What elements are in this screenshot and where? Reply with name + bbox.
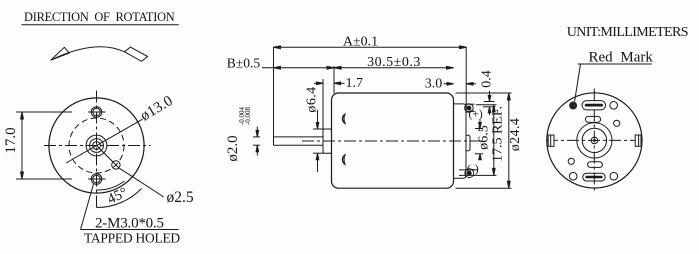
- svg-text:2-M3.0*0.5: 2-M3.0*0.5: [95, 216, 164, 232]
- svg-text:ø2.5: ø2.5: [167, 189, 194, 206]
- svg-text:1.7: 1.7: [346, 76, 364, 91]
- svg-text:ø2.0: ø2.0: [225, 135, 241, 161]
- svg-text:17.5 REF.: 17.5 REF.: [491, 106, 506, 162]
- svg-text:ø24.4: ø24.4: [508, 118, 523, 152]
- svg-text:17.0: 17.0: [3, 127, 19, 153]
- svg-text:0.4: 0.4: [479, 70, 494, 88]
- svg-text:TAPPED HOLED: TAPPED HOLED: [84, 231, 180, 246]
- svg-text:45°: 45°: [105, 184, 130, 207]
- svg-text:-0.008: -0.008: [244, 106, 252, 125]
- svg-text:30.5±0.3: 30.5±0.3: [367, 55, 421, 70]
- svg-text:DIRECTION OF ROTATION: DIRECTION OF ROTATION: [24, 10, 175, 24]
- svg-text:3.0: 3.0: [425, 77, 443, 92]
- svg-text:Red Mark: Red Mark: [589, 50, 654, 66]
- svg-text:UNIT:MILLIMETERS: UNIT:MILLIMETERS: [567, 25, 688, 40]
- svg-text:ø13.0: ø13.0: [138, 93, 176, 125]
- svg-text:A±0.1: A±0.1: [343, 35, 378, 50]
- svg-text:ø6.5: ø6.5: [476, 125, 491, 150]
- svg-text:(+): (+): [469, 109, 483, 121]
- svg-text:B±0.5: B±0.5: [227, 56, 261, 71]
- svg-text:ø6.4: ø6.4: [305, 86, 320, 112]
- svg-text:(-): (-): [467, 162, 479, 176]
